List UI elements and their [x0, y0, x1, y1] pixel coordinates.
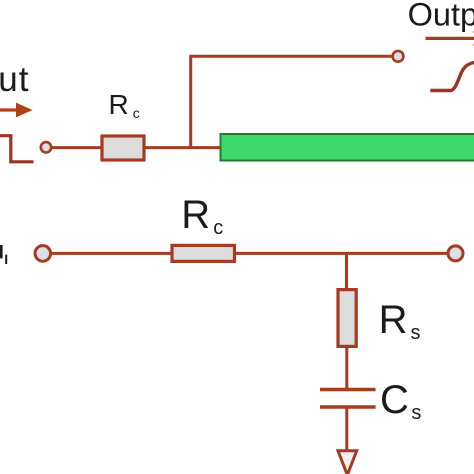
wire: input terminal to Rc	[53, 146, 102, 149]
output arrow (clipped at right edge)	[426, 31, 474, 46]
input terminal node (top circuit)	[41, 142, 51, 152]
wire: junction down to Rs	[345, 253, 348, 290]
resistor Rc (top)	[102, 136, 144, 160]
resistor Rs	[338, 290, 356, 347]
label "uI" (cut off at left edge)	[0, 245, 7, 264]
ground (open arrow)	[338, 451, 357, 474]
svg-text:Output: Output	[408, 0, 474, 33]
wire: Cs to ground	[345, 409, 348, 450]
input arrow	[0, 103, 33, 118]
svg-text:Cs: Cs	[380, 378, 421, 424]
wire: Rs to Cs	[345, 347, 348, 389]
svg-text:Rc: Rc	[109, 89, 140, 121]
transmission line (green bar)	[221, 134, 474, 161]
wire: Rc to transmission line	[145, 146, 221, 149]
svg-text:put: put	[0, 60, 29, 99]
output terminal node (top circuit)	[393, 51, 404, 62]
output terminal node (bottom circuit)	[448, 246, 463, 261]
capacitor Cs	[320, 390, 376, 408]
svg-text:Rc: Rc	[181, 193, 223, 239]
wire: riser and run to output tap	[191, 56, 392, 147]
output step-response waveform	[430, 62, 474, 91]
resistor Rc (bottom)	[172, 245, 235, 261]
input terminal node (bottom circuit)	[35, 246, 51, 262]
input step waveform	[0, 136, 34, 162]
wire: Rc to right terminal	[236, 252, 447, 255]
svg-text:Rs: Rs	[379, 298, 421, 344]
wire: left terminal to Rc (bottom)	[52, 252, 171, 255]
